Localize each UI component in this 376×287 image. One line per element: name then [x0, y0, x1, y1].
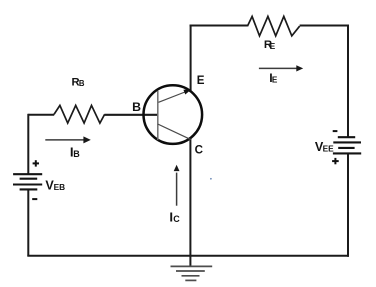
svg-text:E: E — [270, 41, 276, 51]
svg-text:EB: EB — [54, 182, 66, 192]
svg-text:EE: EE — [323, 143, 335, 153]
svg-text:C: C — [173, 214, 180, 224]
svg-text:E: E — [197, 74, 205, 87]
svg-text:E: E — [272, 75, 278, 84]
svg-text:B: B — [132, 100, 141, 114]
svg-text:B: B — [73, 149, 80, 159]
svg-text:B: B — [79, 79, 85, 88]
svg-text:C: C — [195, 143, 204, 156]
